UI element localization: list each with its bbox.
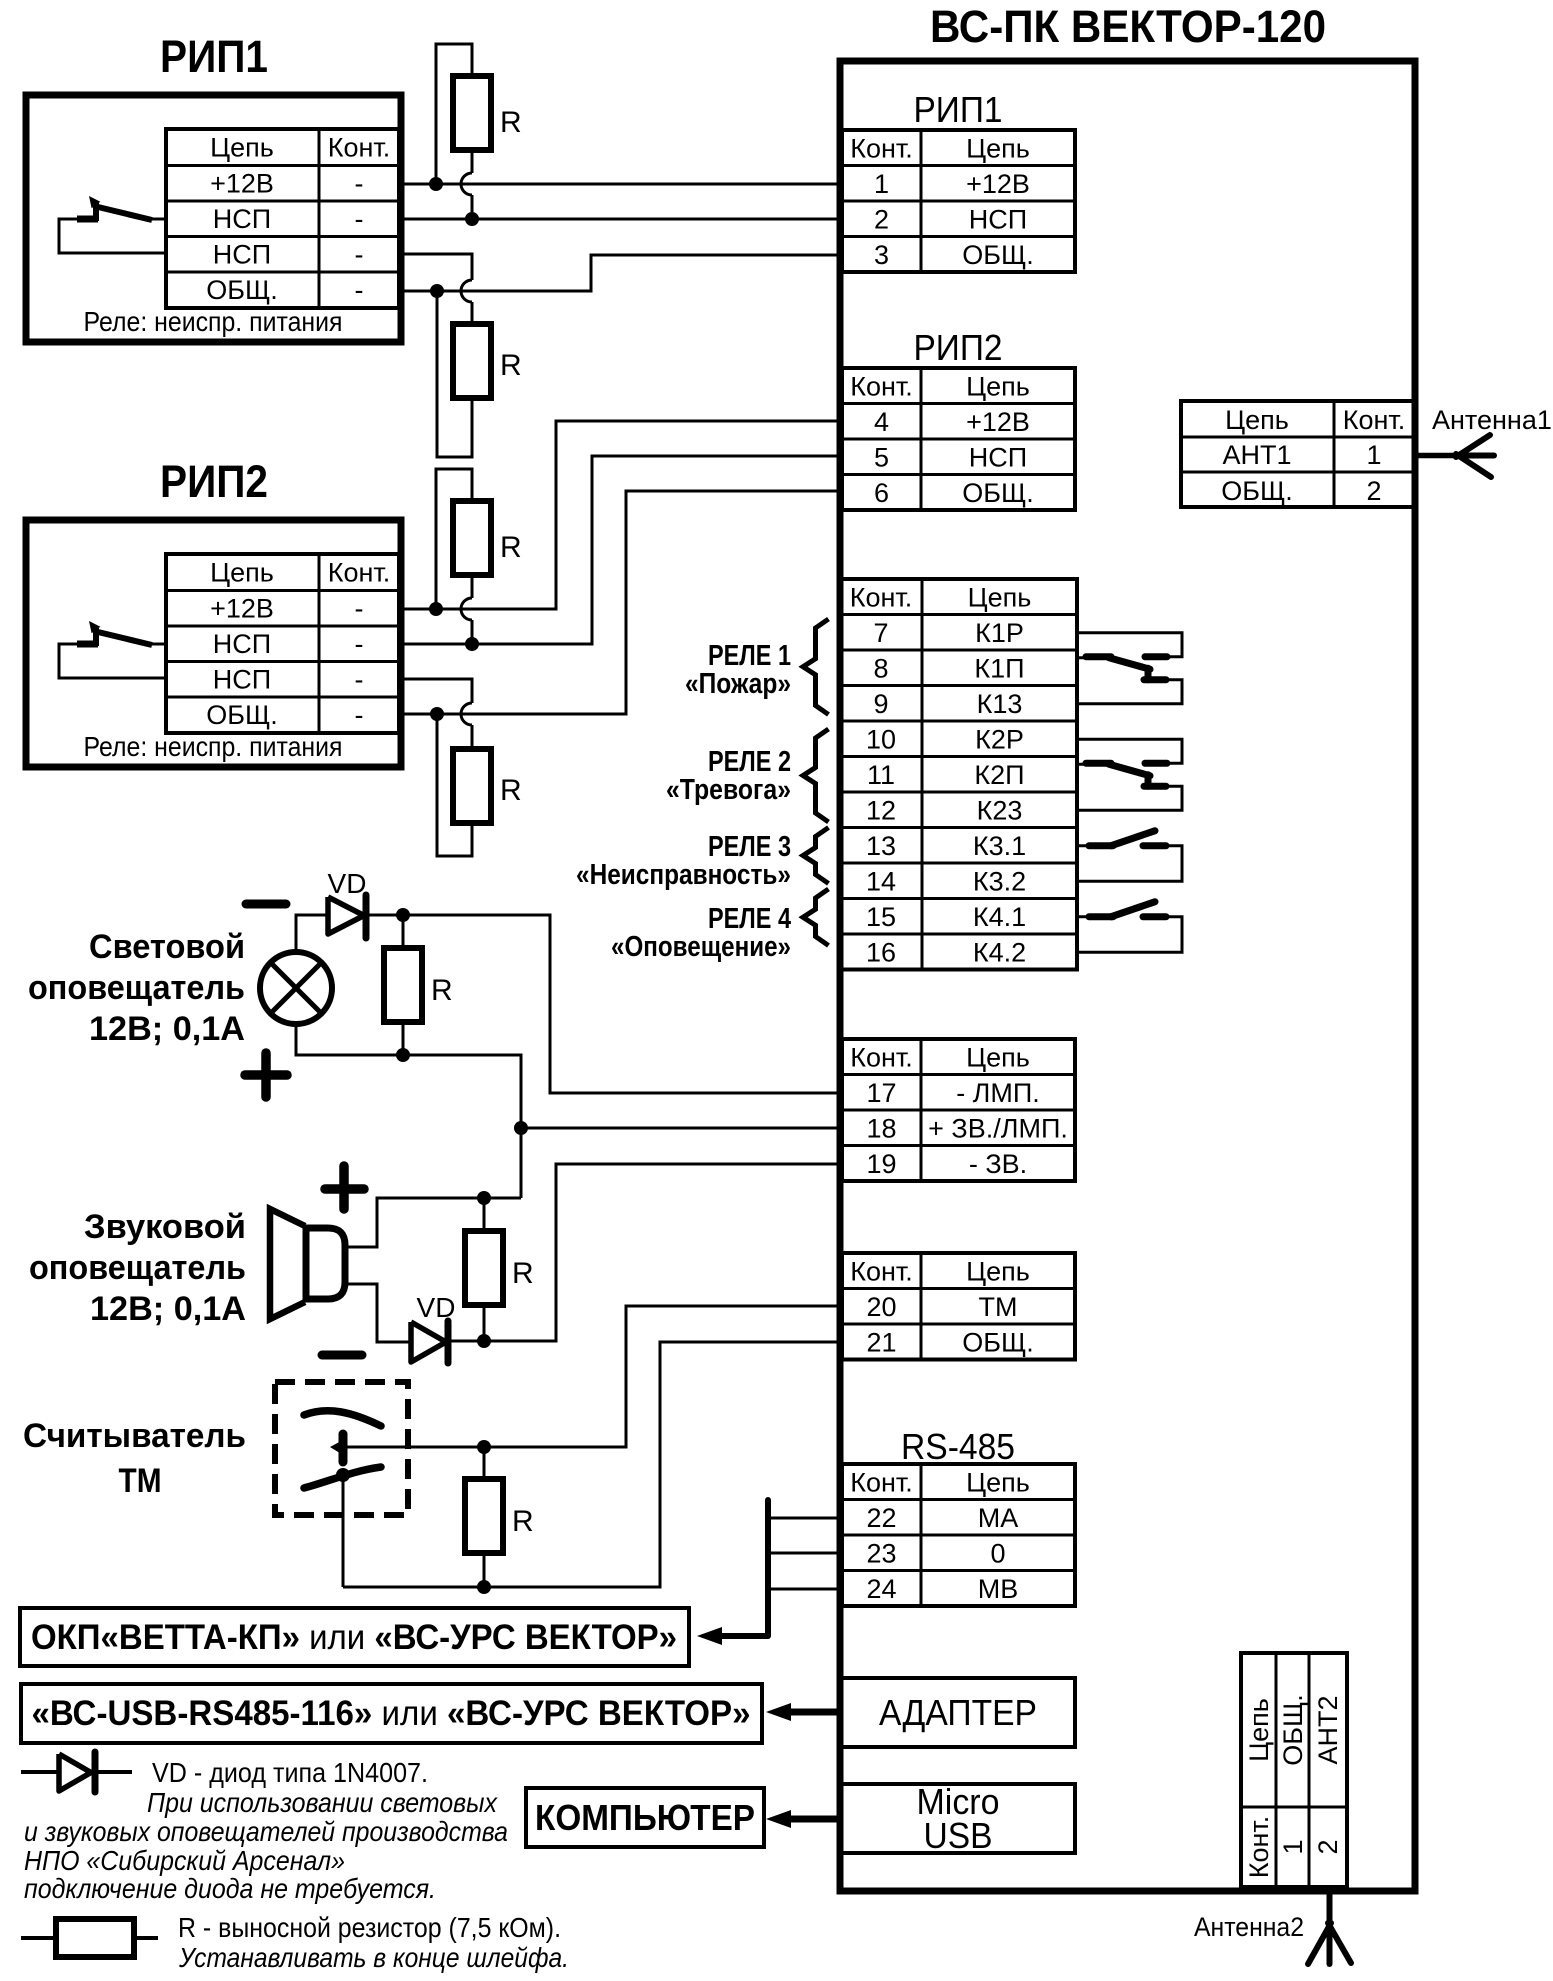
- brace РЕЛЕ 3 rows 13-14: [803, 828, 829, 884]
- TM reader lower contact: [304, 1467, 381, 1488]
- svg-text:К3.2: К3.2: [973, 866, 1026, 896]
- svg-text:1: 1: [1278, 1839, 1308, 1854]
- wire РИП1 НСП to pin 2: [402, 218, 842, 221]
- svg-text:8: 8: [873, 653, 888, 683]
- brace РЕЛЕ 4 rows 15-16: [803, 889, 829, 946]
- svg-text:+12В: +12В: [966, 407, 1030, 437]
- svg-text:«ВС-USB-RS485-116» или «ВС-УРС: «ВС-USB-RS485-116» или «ВС-УРС ВЕКТОР»: [32, 1694, 751, 1733]
- svg-text:АДАПТЕР: АДАПТЕР: [879, 1692, 1037, 1733]
- device box РИП1: [26, 95, 401, 342]
- svg-text:НПО «Сибирский Арсенал»: НПО «Сибирский Арсенал»: [24, 1845, 345, 1876]
- svg-text:Цепь: Цепь: [210, 558, 274, 588]
- junction TM lower contact: [336, 1468, 350, 1482]
- svg-text:20: 20: [866, 1292, 896, 1322]
- svg-text:«Оповещение»: «Оповещение»: [611, 931, 791, 963]
- svg-text:Конт.: Конт.: [850, 133, 913, 163]
- svg-text:-: -: [355, 665, 364, 695]
- svg-text:ОБЩ.: ОБЩ.: [1221, 476, 1293, 506]
- svg-text:1: 1: [874, 169, 889, 199]
- svg-text:16: 16: [866, 937, 896, 967]
- plus sign (lamp): [245, 1053, 287, 1097]
- svg-text:R: R: [500, 774, 522, 807]
- svg-text:6: 6: [874, 478, 889, 508]
- svg-text:ВС-ПК ВЕКТОР-120: ВС-ПК ВЕКТОР-120: [930, 1, 1326, 52]
- svg-text:+ ЗВ./ЛМП.: + ЗВ./ЛМП.: [928, 1113, 1068, 1143]
- svg-text:R: R: [500, 531, 522, 564]
- svg-text:ОБЩ.: ОБЩ.: [962, 478, 1034, 508]
- wire РИП1 НСП2 to resistor R (РИП1 lower): [402, 254, 472, 324]
- minus sign (lamp): [246, 900, 286, 909]
- svg-text:ОБЩ.: ОБЩ.: [206, 275, 278, 305]
- block Micro USB: [841, 1781, 1075, 1856]
- svg-text:Цепь: Цепь: [966, 371, 1030, 401]
- svg-text:ОБЩ.: ОБЩ.: [206, 700, 278, 730]
- brace РЕЛЕ 2 rows 10-12: [803, 729, 829, 822]
- connector table РИП2 (pins 4-6): [842, 327, 1075, 510]
- wire resistor top loop to +12В: [436, 44, 472, 184]
- svg-text:ОКП«ВЕТТА-КП» или «ВС-УРС ВЕКТ: ОКП«ВЕТТА-КП» или «ВС-УРС ВЕКТОР»: [31, 1618, 677, 1657]
- wire resistor bottom loop to ОБЩ.: [437, 291, 472, 457]
- device box РИП2: [26, 520, 401, 767]
- svg-text:НСП: НСП: [213, 240, 271, 270]
- label РЕЛЕ 3 «Неисправность»: [576, 831, 791, 891]
- wire РИП2 +12В to pin 4: [402, 421, 842, 609]
- wire TM ground to pin 21: [343, 1342, 842, 1587]
- wire sound R leads: [483, 1198, 486, 1341]
- wire speaker plus: [345, 1198, 484, 1247]
- svg-text:- ЗВ.: - ЗВ.: [969, 1149, 1027, 1179]
- svg-text:Цепь: Цепь: [968, 582, 1032, 612]
- TM reader dashed box: [275, 1382, 408, 1515]
- svg-text:Устанавливать в конце шлейфа.: Устанавливать в конце шлейфа.: [178, 1942, 569, 1973]
- svg-text:Цепь: Цепь: [966, 1467, 1030, 1497]
- svg-text:12В; 0,1А: 12В; 0,1А: [90, 1290, 246, 1328]
- svg-text:НСП: НСП: [213, 629, 271, 659]
- main unit box ВС-ПК ВЕКТОР-120: [840, 61, 1415, 1891]
- relay contact К1 (changeover, pins 7-9): [1077, 633, 1182, 704]
- svg-text:2: 2: [1366, 476, 1381, 506]
- wire lamp minus to diode: [296, 915, 328, 952]
- minus sign (sound): [322, 1351, 362, 1360]
- resistor R (РИП2 upper): [453, 501, 522, 575]
- svg-text:R: R: [431, 974, 453, 1007]
- junction sound R bottom: [477, 1334, 491, 1348]
- brace РЕЛЕ 1 rows 7-9: [803, 619, 829, 715]
- wire РИП2 НСП2 to resistor R (РИП2 lower): [402, 679, 472, 749]
- svg-text:Антенна2: Антенна2: [1194, 1912, 1304, 1942]
- svg-text:НСП: НСП: [213, 665, 271, 695]
- wire diode to pin 19: [448, 1164, 842, 1341]
- svg-text:НСП: НСП: [969, 204, 1027, 234]
- label РЕЛЕ 2 «Тревога»: [666, 746, 791, 806]
- svg-text:и звуковых оповещателей произв: и звуковых оповещателей производства: [24, 1816, 508, 1847]
- wire РИП1 +12В to pin 1: [402, 183, 842, 186]
- svg-text:Конт.: Конт.: [850, 1467, 913, 1497]
- TM reader upper contact: [304, 1411, 381, 1426]
- wire speaker minus to diode: [345, 1284, 411, 1342]
- junction on +12В wire: [429, 177, 443, 191]
- label РЕЛЕ 4 «Оповещение»: [611, 903, 791, 963]
- svg-text:11: 11: [867, 760, 895, 790]
- svg-text:Конт.: Конт.: [328, 133, 391, 163]
- svg-text:Цепь: Цепь: [1244, 1698, 1274, 1762]
- junction TM R top: [477, 1440, 491, 1454]
- svg-text:14: 14: [866, 866, 896, 896]
- svg-text:Конт.: Конт.: [850, 1256, 913, 1286]
- wire sound R top to pin18 branch: [484, 1197, 521, 1200]
- svg-text:24: 24: [866, 1574, 896, 1604]
- svg-text:Звуковой: Звуковой: [84, 1208, 246, 1246]
- svg-text:+12В: +12В: [210, 169, 274, 199]
- svg-text:-: -: [355, 204, 364, 234]
- svg-text:К23: К23: [977, 795, 1023, 825]
- svg-text:К1П: К1П: [974, 653, 1024, 683]
- resistor R (lamp): [384, 948, 453, 1022]
- wire RS-485 bus to ОКП box: [697, 1500, 842, 1645]
- svg-text:12: 12: [866, 795, 896, 825]
- resistor R (РИП1 lower): [453, 324, 522, 398]
- svg-text:Антенна1: Антенна1: [1432, 405, 1552, 435]
- junction on РИП2 ОБЩ. wire: [430, 707, 444, 721]
- svg-text:К1Р: К1Р: [975, 618, 1024, 648]
- svg-text:К2Р: К2Р: [975, 724, 1024, 754]
- svg-text:- ЛМП.: - ЛМП.: [956, 1078, 1040, 1108]
- svg-text:23: 23: [866, 1538, 896, 1568]
- wire resistor bottom with hop over +12В: [461, 150, 472, 218]
- svg-text:МА: МА: [978, 1503, 1019, 1533]
- svg-text:НСП: НСП: [213, 204, 271, 234]
- svg-text:USB: USB: [924, 1815, 993, 1856]
- svg-text:0: 0: [990, 1538, 1005, 1568]
- diode VD (sound): [411, 1321, 448, 1363]
- antenna symbol Антенна2: [1308, 1891, 1351, 1964]
- wire TM to pin 20: [343, 1306, 842, 1447]
- svg-text:АНТ1: АНТ1: [1222, 440, 1291, 470]
- block КОМПЬЮТЕР: [526, 1788, 764, 1847]
- junction on НСП wire: [465, 212, 479, 226]
- connector table РИП1 (pins 1-3): [842, 89, 1075, 272]
- svg-text:ТМ: ТМ: [119, 1462, 162, 1500]
- svg-text:К2П: К2П: [974, 760, 1024, 790]
- svg-text:3: 3: [874, 240, 889, 270]
- svg-text:РИП2: РИП2: [160, 456, 268, 507]
- svg-text:15: 15: [866, 902, 896, 932]
- connector table ТМ (pins 20-21): [842, 1253, 1075, 1360]
- svg-text:7: 7: [873, 618, 888, 648]
- svg-text:подключение диода не требуется: подключение диода не требуется.: [24, 1873, 436, 1904]
- svg-text:2: 2: [1313, 1839, 1343, 1854]
- junction on РИП2 НСП wire: [465, 637, 479, 651]
- wire diode to pin 17: [367, 915, 842, 1093]
- svg-text:2: 2: [874, 204, 889, 234]
- svg-text:Конт.: Конт.: [328, 558, 391, 588]
- svg-text:ОБЩ.: ОБЩ.: [962, 1327, 1034, 1357]
- svg-text:Конт.: Конт.: [1343, 405, 1406, 435]
- table РИП1 Цепь/Конт.: [166, 129, 399, 308]
- svg-text:ОБЩ.: ОБЩ.: [1278, 1694, 1308, 1766]
- svg-text:К13: К13: [977, 689, 1023, 719]
- svg-text:-: -: [355, 169, 364, 199]
- svg-text:-: -: [355, 594, 364, 624]
- resistor R (sound): [465, 1231, 534, 1305]
- resistor R (РИП1 upper): [453, 76, 522, 150]
- svg-text:12В; 0,1А: 12В; 0,1А: [89, 1010, 245, 1048]
- legend resistor symbol: [21, 1919, 158, 1957]
- label РЕЛЕ 1 «Пожар»: [685, 640, 791, 700]
- wire resistor bottom with hop over РИП2 +12В: [461, 575, 472, 643]
- svg-text:VD: VD: [328, 868, 367, 899]
- relay contact К2 (changeover, pins 10-12): [1077, 739, 1182, 810]
- svg-text:Цепь: Цепь: [966, 1042, 1030, 1072]
- speaker symbol (звуковой оповещатель): [270, 1209, 345, 1319]
- svg-text:-: -: [355, 700, 364, 730]
- junction lamp R top: [396, 908, 410, 922]
- wire resistor bottom loop to РИП2 ОБЩ.: [437, 714, 472, 856]
- svg-text:R: R: [512, 1257, 534, 1290]
- svg-text:К3.1: К3.1: [973, 831, 1026, 861]
- connector table RS-485 (pins 22-24): [842, 1464, 1075, 1606]
- junction lamp R bottom: [396, 1048, 410, 1062]
- block АДАПТЕР: [841, 1678, 1075, 1747]
- svg-text:21: 21: [866, 1327, 896, 1357]
- relay switch contact in РИП1: [59, 196, 166, 253]
- svg-text:РИП1: РИП1: [160, 31, 268, 82]
- svg-text:РИП2: РИП2: [914, 327, 1003, 368]
- svg-text:Световой: Световой: [89, 928, 245, 966]
- svg-text:R: R: [500, 349, 522, 382]
- svg-text:5: 5: [874, 442, 889, 472]
- connector table АНТ2 (Антенна2): [1241, 1653, 1347, 1887]
- relay switch contact in РИП2: [59, 621, 166, 678]
- junction pin 18 branch: [514, 1121, 528, 1135]
- svg-text:Цепь: Цепь: [210, 133, 274, 163]
- svg-text:+12В: +12В: [210, 594, 274, 624]
- svg-text:НСП: НСП: [969, 442, 1027, 472]
- svg-text:17: 17: [866, 1078, 896, 1108]
- block ОКП«ВЕТТА-КП» или «ВС-УРС ВЕКТОР»: [20, 1608, 689, 1666]
- svg-text:Конт.: Конт.: [850, 1042, 913, 1072]
- wire lamp R leads: [402, 915, 405, 1055]
- svg-text:Реле: неиспр. питания: Реле: неиспр. питания: [84, 731, 343, 762]
- block «ВС-USB-RS485-116» или «ВС-УРС ВЕКТОР»: [21, 1684, 762, 1743]
- svg-text:-: -: [355, 240, 364, 270]
- antenna symbol Антенна1: [1415, 435, 1494, 477]
- connector table АНТ1 (Антенна1): [1181, 401, 1414, 507]
- svg-text:МВ: МВ: [978, 1574, 1019, 1604]
- resistor R (ТМ): [465, 1479, 534, 1553]
- svg-text:9: 9: [873, 689, 888, 719]
- svg-text:Цепь: Цепь: [966, 1256, 1030, 1286]
- table РИП2 Цепь/Конт.: [166, 554, 399, 733]
- svg-text:Реле: неиспр. питания: Реле: неиспр. питания: [84, 306, 343, 337]
- TM reader center terminal: [330, 1434, 343, 1462]
- wire РИП1 ОБЩ. to pin 3: [402, 255, 842, 291]
- svg-text:«Тревога»: «Тревога»: [666, 774, 791, 806]
- junction on ОБЩ. wire: [430, 284, 444, 298]
- svg-text:18: 18: [866, 1113, 896, 1143]
- junction sound R top: [477, 1191, 491, 1205]
- svg-text:-: -: [355, 275, 364, 305]
- svg-text:При использовании световых: При использовании световых: [147, 1787, 498, 1818]
- svg-text:R - выносной резистор (7,5 кОм: R - выносной резистор (7,5 кОм).: [178, 1912, 561, 1943]
- svg-text:Конт.: Конт.: [1244, 1816, 1274, 1879]
- label Световой оповещатель 12В; 0,1А: [28, 928, 245, 1048]
- svg-text:К4.1: К4.1: [973, 902, 1026, 932]
- svg-text:19: 19: [866, 1149, 896, 1179]
- svg-text:РИП1: РИП1: [914, 89, 1003, 130]
- label Звуковой оповещатель 12В; 0,1А: [29, 1208, 246, 1328]
- relay contact К4 (pins 15-16): [1077, 902, 1182, 953]
- svg-text:«Неисправность»: «Неисправность»: [576, 859, 791, 891]
- svg-text:ОБЩ.: ОБЩ.: [962, 240, 1034, 270]
- lamp symbol (световой оповещатель): [260, 952, 332, 1024]
- label Считыватель ТМ: [23, 1417, 246, 1500]
- wire resistor top loop to РИП2 +12В: [436, 469, 472, 609]
- svg-text:1: 1: [1366, 440, 1381, 470]
- svg-text:КОМПЬЮТЕР: КОМПЬЮТЕР: [535, 1797, 755, 1838]
- resistor R (РИП2 lower): [453, 749, 522, 823]
- svg-text:13: 13: [866, 831, 896, 861]
- plus sign (sound): [325, 1166, 364, 1209]
- svg-text:Цепь: Цепь: [1225, 405, 1289, 435]
- svg-text:4: 4: [874, 407, 889, 437]
- legend diode symbol: [21, 1752, 132, 1792]
- connector table lamp/sound (pins 17-19): [842, 1039, 1075, 1181]
- svg-text:оповещатель: оповещатель: [28, 969, 245, 1007]
- svg-text:-: -: [355, 629, 364, 659]
- svg-text:R: R: [500, 106, 522, 139]
- diode VD (lamp): [328, 895, 366, 938]
- svg-text:22: 22: [866, 1503, 896, 1533]
- svg-text:оповещатель: оповещатель: [29, 1249, 246, 1287]
- junction on РИП2 +12В wire: [429, 602, 443, 616]
- svg-text:Цепь: Цепь: [966, 133, 1030, 163]
- svg-text:R: R: [512, 1505, 534, 1538]
- svg-text:10: 10: [866, 724, 896, 754]
- svg-text:+12В: +12В: [966, 169, 1030, 199]
- svg-text:Конт.: Конт.: [850, 371, 913, 401]
- connector table relays (pins 7-16): [840, 579, 1077, 970]
- wire TM R leads: [483, 1447, 486, 1587]
- wire РИП2 ОБЩ. to pin 6: [402, 491, 842, 714]
- svg-text:К4.2: К4.2: [973, 937, 1026, 967]
- arrow АДАПТЕР to ВС-USB box: [766, 1703, 841, 1721]
- svg-text:Конт.: Конт.: [850, 582, 913, 612]
- wire lamp plus to pin 18: [296, 1024, 842, 1198]
- svg-text:RS-485: RS-485: [901, 1426, 1015, 1467]
- svg-text:ТМ: ТМ: [979, 1292, 1018, 1322]
- arrow Micro USB to КОМПЬЮТЕР: [766, 1810, 841, 1828]
- svg-text:«Пожар»: «Пожар»: [685, 668, 791, 700]
- wire РИП2 НСП to pin 5: [402, 456, 842, 644]
- relay contact К3 (pins 13-14): [1077, 831, 1182, 882]
- junction TM R bottom: [477, 1580, 491, 1594]
- svg-text:Считыватель: Считыватель: [23, 1417, 246, 1455]
- svg-text:VD - диод типа 1N4007.: VD - диод типа 1N4007.: [152, 1757, 428, 1788]
- svg-text:АНТ2: АНТ2: [1313, 1695, 1343, 1764]
